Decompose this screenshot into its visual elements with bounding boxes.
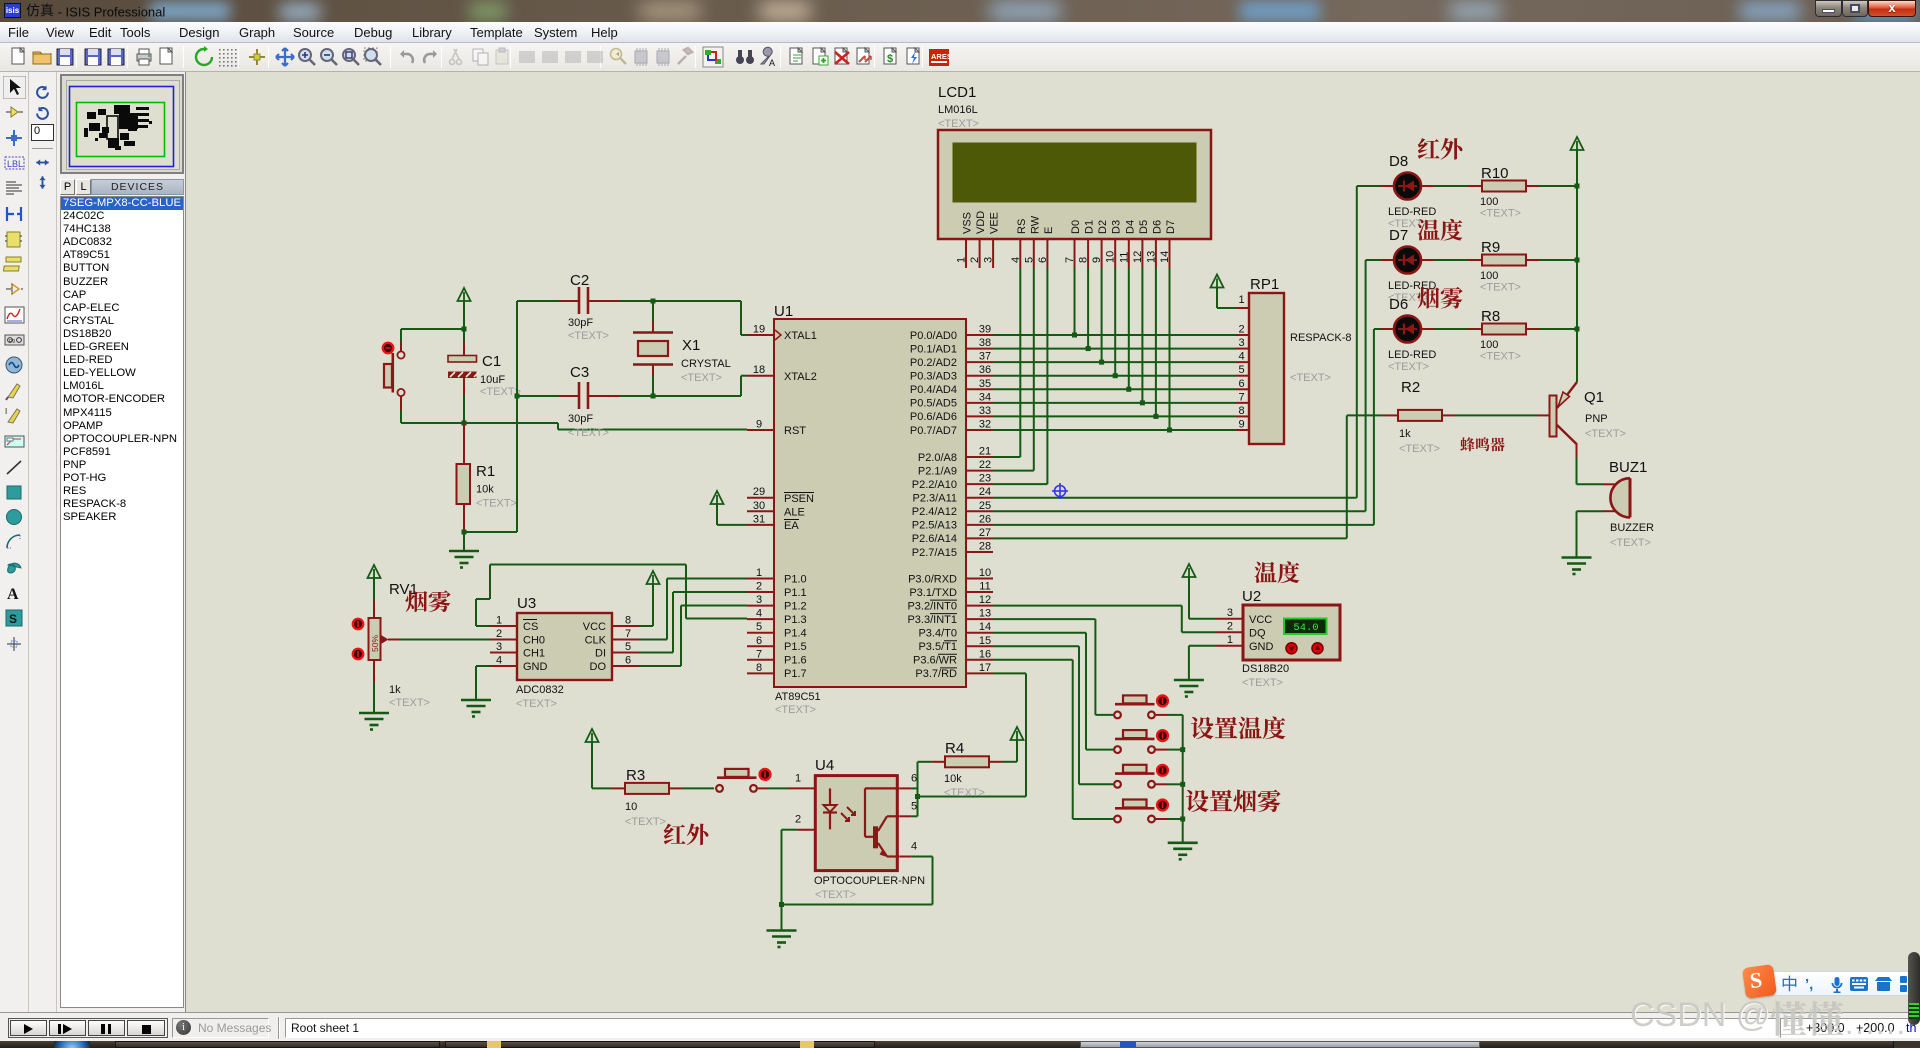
svg-text:P3.5/T1: P3.5/T1: [918, 641, 957, 653]
svg-text:CS: CS: [523, 621, 538, 633]
svg-text:E: E: [1043, 227, 1055, 234]
LCD1 labels: [938, 84, 979, 130]
toolbar: [0, 43, 1920, 72]
svg-text:11: 11: [979, 581, 990, 593]
wire X1 to XTAL1: [653, 300, 741, 302]
wire key1 to rail: [1156, 714, 1168, 716]
junction U4 ground net: [779, 902, 784, 907]
svg-text:P0.6/AD6: P0.6/AD6: [910, 411, 957, 423]
svg-text:10: 10: [979, 567, 991, 579]
svg-text:RS: RS: [1016, 219, 1028, 234]
svg-text:<TEXT>: <TEXT>: [938, 118, 979, 130]
svg-text:2: 2: [1238, 324, 1244, 336]
ground button rail: [1168, 843, 1198, 860]
button key1: [1114, 695, 1155, 718]
svg-text:1k: 1k: [1399, 428, 1411, 440]
svg-text:<TEXT>: <TEXT>: [1388, 361, 1429, 373]
svg-text:P3.4/T0: P3.4/T0: [918, 628, 957, 640]
rotate controls column: [29, 72, 57, 1012]
label 设置温度: [1191, 717, 1214, 739]
MCU U1 AT89C51 body: [774, 319, 966, 687]
cursor crosshair: [1052, 483, 1068, 499]
svg-text:32: 32: [979, 418, 991, 430]
wire buzzer to ground: [1577, 510, 1604, 512]
ground U2: [1174, 680, 1204, 697]
svg-text:50%: 50%: [370, 635, 380, 652]
svg-text:<TEXT>: <TEXT>: [1585, 428, 1626, 440]
svg-text:2: 2: [496, 628, 502, 640]
svg-text:3: 3: [496, 641, 502, 653]
svg-text:<TEXT>: <TEXT>: [775, 704, 816, 716]
button IR: [716, 769, 757, 792]
svg-text:ALE: ALE: [784, 507, 805, 519]
RV1 indicator dots: [353, 619, 363, 629]
svg-text:P1.4: P1.4: [784, 628, 807, 640]
junction X1 top: [651, 299, 656, 304]
svg-text:D6: D6: [1151, 220, 1163, 234]
svg-text:P3.1/TXD: P3.1/TXD: [909, 587, 957, 599]
wire LCD RW to P2.1: [1033, 268, 1035, 471]
wire vcc to button: [401, 328, 464, 330]
svg-text:4: 4: [1010, 257, 1022, 263]
svg-text:2: 2: [1227, 621, 1233, 633]
left panel: [57, 72, 186, 1012]
U1 pin labels left: [784, 330, 817, 680]
svg-text:10: 10: [625, 801, 637, 813]
svg-text:P2.2/A10: P2.2/A10: [912, 479, 957, 491]
ground buzzer: [1562, 558, 1592, 575]
svg-text:C2: C2: [570, 272, 589, 289]
svg-text:R2: R2: [1401, 379, 1420, 396]
svg-text:LED-RED: LED-RED: [1388, 349, 1436, 361]
svg-text:RESPACK-8: RESPACK-8: [1290, 332, 1352, 344]
wire R2 to Q1 base: [1456, 414, 1537, 416]
power vcc RP1: [1211, 275, 1224, 288]
LCD1 pin names: [962, 211, 1178, 234]
wire U2 GND to ground: [1189, 645, 1217, 647]
svg-text:12: 12: [979, 594, 991, 606]
svg-text:R1: R1: [476, 463, 495, 480]
svg-text:GND: GND: [1249, 641, 1274, 653]
svg-text:DI: DI: [595, 648, 606, 660]
svg-text:30pF: 30pF: [568, 413, 593, 425]
svg-text:BUZ1: BUZ1: [1609, 459, 1647, 476]
wire U3 CLK to P1.0: [639, 639, 667, 641]
transistor Q1 PNP: [1537, 382, 1626, 457]
junction R10 rail: [1575, 184, 1580, 189]
wire P3.4 to key2: [993, 632, 1086, 634]
svg-text:<TEXT>: <TEXT>: [389, 697, 430, 709]
status bar: [0, 1012, 1920, 1041]
svg-text:<TEXT>: <TEXT>: [568, 330, 609, 342]
label 温度 D7: [1418, 219, 1440, 240]
taskbar: [0, 1041, 1920, 1048]
button IR indicator: [760, 769, 771, 780]
U2 buttons up down: [1286, 643, 1323, 654]
svg-text:VEE: VEE: [989, 212, 1001, 234]
svg-text:P2.1/A9: P2.1/A9: [918, 465, 957, 477]
svg-text:7: 7: [625, 628, 631, 640]
svg-text:DQ: DQ: [1249, 628, 1266, 640]
svg-text:P2.5/A13: P2.5/A13: [912, 520, 957, 532]
wire key3 to rail: [1156, 783, 1168, 785]
U1 pin numbers left: [753, 324, 765, 674]
label 烟雾 D6: [1418, 287, 1440, 309]
wire button rail: [1182, 715, 1184, 843]
svg-text:18: 18: [753, 364, 765, 376]
svg-text:6: 6: [1037, 257, 1049, 263]
svg-text:VCC: VCC: [1249, 614, 1272, 626]
svg-text:OPTOCOUPLER-NPN: OPTOCOUPLER-NPN: [814, 875, 925, 887]
button key3: [1114, 765, 1155, 788]
svg-text:8: 8: [1078, 257, 1090, 263]
svg-text:D4: D4: [1124, 220, 1136, 234]
svg-text:5: 5: [756, 621, 762, 633]
U4 pin stubs: [797, 788, 911, 856]
svg-text:P0.4/AD4: P0.4/AD4: [910, 384, 957, 396]
svg-text:39: 39: [979, 324, 991, 336]
resistor R2 1k: [1384, 379, 1456, 455]
wire P2 to D7: [993, 510, 1366, 512]
svg-text:3: 3: [1227, 607, 1233, 619]
svg-text:23: 23: [979, 473, 991, 485]
wire P2 to D6: [993, 524, 1374, 526]
svg-text:1: 1: [1238, 294, 1244, 306]
svg-text:VDD: VDD: [975, 211, 987, 234]
svg-text:P0.3/AD3: P0.3/AD3: [910, 371, 957, 383]
svg-text:CH0: CH0: [523, 635, 545, 647]
svg-text:5: 5: [1238, 364, 1244, 376]
label 温度 U2: [1255, 562, 1277, 583]
svg-text:<TEXT>: <TEXT>: [1399, 443, 1440, 455]
scrollbar thumb bottom right: [1908, 952, 1920, 1025]
svg-text:<TEXT>: <TEXT>: [568, 427, 609, 439]
svg-text:7: 7: [756, 648, 762, 660]
svg-text:CLK: CLK: [585, 635, 607, 647]
wire U4 pin4 loop: [782, 904, 933, 906]
label 红外 D8: [1418, 138, 1440, 159]
button key2 indicator: [1157, 730, 1168, 741]
wires LCD data bus to P0 and RP1: [993, 268, 1236, 430]
U2 display 54.0: [1284, 619, 1327, 635]
wire U4 pins 5 6 pullup: [912, 787, 918, 789]
svg-text:36: 36: [979, 364, 991, 376]
LCD LCD1 LM016L body: [938, 130, 1211, 239]
svg-text:14: 14: [979, 621, 991, 633]
label 蜂鸣器: [1460, 437, 1474, 451]
button key3 indicator: [1157, 765, 1168, 776]
svg-text:U2: U2: [1242, 588, 1261, 605]
svg-text:VSS: VSS: [962, 212, 974, 234]
svg-text:<TEXT>: <TEXT>: [1480, 282, 1521, 294]
svg-text:PNP: PNP: [1585, 413, 1608, 425]
svg-text:C1: C1: [482, 353, 501, 370]
label 红外 R3: [664, 824, 686, 845]
wire U3 GND to ground: [476, 665, 490, 667]
svg-text:6: 6: [756, 635, 762, 647]
svg-text:16: 16: [979, 648, 991, 660]
svg-text:P1.2: P1.2: [784, 600, 807, 612]
svg-text:P1.6: P1.6: [784, 655, 807, 667]
svg-text:P1.3: P1.3: [784, 614, 807, 626]
junctions data bus: [1072, 333, 1172, 433]
svg-text:13: 13: [1145, 251, 1157, 263]
button RESET: [384, 342, 405, 410]
wire IR button to U4 pin1: [758, 787, 768, 789]
svg-text:D7: D7: [1389, 227, 1408, 244]
svg-text:X1: X1: [682, 337, 700, 354]
svg-text:D8: D8: [1389, 153, 1408, 170]
svg-text:VCC: VCC: [583, 621, 606, 633]
U1 left pin stubs: [747, 335, 774, 673]
wire R3 to IR button: [683, 787, 715, 789]
U1 pin numbers right: [979, 324, 991, 674]
capacitor C2 30pF: [517, 272, 653, 342]
svg-text:8: 8: [756, 662, 762, 674]
ground U3: [461, 700, 491, 717]
svg-text:26: 26: [979, 513, 991, 525]
junction rail 3: [1180, 782, 1185, 787]
svg-text:P2.7/A15: P2.7/A15: [912, 547, 957, 559]
resistor R4 10k: [918, 740, 1003, 799]
svg-text:P2.6/A14: P2.6/A14: [912, 533, 957, 545]
crystal X1: [633, 301, 731, 396]
resistor R9 100: [1434, 239, 1577, 294]
wire key4 to rail: [1156, 818, 1168, 820]
svg-text:5: 5: [625, 641, 631, 653]
svg-text:1: 1: [1227, 634, 1233, 646]
svg-text:S: S: [9, 612, 17, 626]
svg-text:100: 100: [1480, 270, 1498, 282]
svg-text:21: 21: [979, 446, 991, 458]
svg-text:37: 37: [979, 351, 991, 363]
U3 pin stubs: [490, 626, 639, 666]
wire P3.6 to key4: [993, 659, 1073, 661]
svg-text:P3.7/RD: P3.7/RD: [915, 668, 957, 680]
LED D6 LED-RED: [1381, 296, 1436, 373]
resistor R3 10: [611, 767, 683, 828]
U1 pin labels right: [907, 330, 957, 680]
power vcc reset: [458, 288, 471, 301]
svg-text:LED-RED: LED-RED: [1388, 280, 1436, 292]
wire P2 to D8: [993, 497, 1357, 499]
device list: [60, 196, 184, 1008]
svg-text:GND: GND: [523, 661, 548, 673]
U1 XTAL1 input mark: [775, 330, 781, 340]
svg-text:BUZZER: BUZZER: [1610, 522, 1654, 534]
svg-text:P1.0: P1.0: [784, 573, 807, 585]
svg-text:P3.0/RXD: P3.0/RXD: [908, 573, 957, 585]
svg-text:D6: D6: [1389, 296, 1408, 313]
svg-text:P2.4/A12: P2.4/A12: [912, 506, 957, 518]
svg-text:8: 8: [625, 615, 631, 627]
wire U4 pin2 to ground net: [782, 829, 798, 831]
svg-text:P3.6/WR: P3.6/WR: [913, 655, 957, 667]
svg-text:2: 2: [969, 257, 981, 263]
U3 pin numbers: [496, 615, 631, 667]
junction osc C3: [515, 394, 520, 399]
svg-text:24: 24: [979, 486, 991, 498]
overview minimap: [60, 74, 184, 174]
RP1 pin stubs and numbers: [1236, 294, 1249, 430]
svg-text:R9: R9: [1481, 239, 1500, 256]
svg-text:4: 4: [496, 655, 502, 667]
svg-text:<TEXT>: <TEXT>: [1480, 208, 1521, 220]
svg-text:35: 35: [979, 378, 991, 390]
svg-text:4: 4: [911, 841, 917, 853]
svg-text:A: A: [7, 586, 19, 603]
button RESET indicator: [383, 343, 393, 353]
svg-text:1k: 1k: [389, 684, 401, 696]
wire LCD RS to P2.0: [1019, 268, 1021, 457]
svg-text:17: 17: [979, 662, 991, 674]
svg-text:P0.0/AD0: P0.0/AD0: [910, 330, 957, 342]
potentiometer RV1 1k: [369, 581, 430, 709]
svg-text:1: 1: [756, 567, 762, 579]
svg-text:100: 100: [1480, 196, 1498, 208]
power vcc EA: [711, 491, 724, 504]
app icon: [4, 3, 21, 18]
sensor U2 DS18B20 body: [1243, 605, 1340, 660]
U3 pin labels: [523, 620, 607, 674]
wire U2 DQ to P3.2: [993, 605, 1182, 607]
junction C1 bottom: [462, 421, 467, 426]
svg-text:3: 3: [983, 257, 995, 263]
junction R9 rail: [1575, 258, 1580, 263]
U4 inner transistor: [865, 788, 899, 857]
svg-text:7: 7: [1238, 391, 1244, 403]
ground RV1: [373, 682, 375, 713]
wire RV1 wiper to CH0: [400, 639, 490, 641]
svg-text:LED-RED: LED-RED: [1388, 206, 1436, 218]
svg-text:PSEN: PSEN: [784, 493, 814, 505]
svg-text:30pF: 30pF: [568, 317, 593, 329]
svg-text:RST: RST: [784, 425, 806, 437]
LED D7 LED-RED: [1381, 227, 1436, 304]
junction U4 output: [915, 794, 920, 799]
wire P3.3 to key1: [993, 618, 1095, 620]
svg-text:P0.7/AD7: P0.7/AD7: [910, 425, 957, 437]
button key2: [1114, 730, 1155, 753]
svg-text:6: 6: [911, 772, 917, 784]
ADC U3 ADC0832 body: [517, 613, 612, 680]
U4 inner led: [823, 788, 855, 829]
svg-text:30: 30: [753, 500, 765, 512]
svg-text:<TEXT>: <TEXT>: [625, 816, 666, 828]
svg-text:XTAL1: XTAL1: [784, 330, 817, 342]
svg-text:<TEXT>: <TEXT>: [815, 889, 856, 901]
ground U4: [781, 905, 783, 931]
watermark: [1630, 996, 1844, 1038]
svg-text:CH1: CH1: [523, 648, 545, 660]
svg-text:6: 6: [625, 655, 631, 667]
LCD1 pin numbers: [956, 251, 1172, 263]
svg-text:5: 5: [1023, 257, 1035, 263]
ground reset: [463, 532, 465, 551]
junction reset-vcc: [462, 327, 467, 332]
svg-text:P2.0/A8: P2.0/A8: [918, 452, 957, 464]
wire P3.5 to key3: [993, 645, 1079, 647]
wire X1 to XTAL2: [653, 395, 741, 397]
power vcc U3: [647, 571, 660, 584]
svg-text:6: 6: [1238, 378, 1244, 390]
svg-text:100: 100: [1480, 339, 1498, 351]
svg-text:$: $: [887, 53, 893, 65]
svg-text:EA: EA: [784, 520, 799, 532]
sogou input bar: [1762, 971, 1920, 996]
svg-text:27: 27: [979, 527, 991, 539]
resistor R10 100: [1434, 165, 1577, 220]
svg-text:<TEXT>: <TEXT>: [1242, 677, 1283, 689]
svg-text:10uF: 10uF: [480, 374, 505, 386]
svg-text:LBL: LBL: [7, 159, 23, 169]
svg-text:4: 4: [756, 608, 762, 620]
wire Q1 collector to buzzer: [1576, 457, 1578, 484]
svg-text:LM016L: LM016L: [938, 104, 978, 116]
svg-text:9: 9: [756, 419, 762, 431]
svg-text:3: 3: [1238, 337, 1244, 349]
svg-text:9: 9: [1091, 257, 1103, 263]
svg-text:LCD1: LCD1: [938, 84, 976, 101]
svg-text:<TEXT>: <TEXT>: [516, 698, 557, 710]
svg-text:3: 3: [756, 594, 762, 606]
svg-text:U1: U1: [774, 303, 793, 320]
svg-text:I: I: [5, 407, 7, 416]
svg-text:D7: D7: [1165, 220, 1177, 234]
wire R1 to EA-net: [464, 531, 517, 533]
LCD1 pin stubs: [966, 239, 1170, 268]
svg-text:31: 31: [753, 513, 765, 525]
junction rail 2: [1180, 747, 1185, 752]
svg-text:4: 4: [1238, 351, 1244, 363]
svg-text:1: 1: [795, 772, 801, 784]
power vcc RV1: [368, 565, 381, 578]
wire U3 DI to P1.1: [639, 652, 673, 654]
svg-text:D1: D1: [1084, 220, 1096, 234]
menu bar: [0, 22, 1920, 43]
junction R1 bottom: [462, 530, 467, 535]
wire U3 DO to P1.2: [639, 665, 681, 667]
svg-text:P3.3/INT1: P3.3/INT1: [907, 614, 957, 626]
svg-text:9: 9: [1238, 418, 1244, 430]
svg-text:P1.1: P1.1: [784, 587, 807, 599]
svg-text:P9: P9: [9, 339, 15, 345]
svg-text:<TEXT>: <TEXT>: [1480, 351, 1521, 363]
svg-text:D3: D3: [1111, 220, 1123, 234]
svg-text:<TEXT>: <TEXT>: [1610, 537, 1651, 549]
svg-text:D5: D5: [1138, 220, 1150, 234]
U2 pin labels and numbers: [1217, 607, 1274, 653]
svg-text:DS18B20: DS18B20: [1242, 663, 1289, 675]
power vcc U2: [1183, 564, 1196, 577]
svg-text:ADC0832: ADC0832: [516, 684, 564, 696]
svg-text:1: 1: [496, 615, 502, 627]
junction rail 4: [1180, 817, 1185, 822]
svg-text:RW: RW: [1029, 215, 1041, 234]
svg-text:P0.1/AD1: P0.1/AD1: [910, 343, 957, 355]
svg-text:AT89C51: AT89C51: [775, 691, 821, 703]
svg-text:14: 14: [1159, 251, 1171, 263]
capacitor C1: [448, 329, 521, 423]
left icon toolbar: [0, 72, 29, 1012]
svg-text:DO: DO: [590, 661, 607, 673]
svg-text:P0.5/AD5: P0.5/AD5: [910, 398, 957, 410]
svg-text:8: 8: [1238, 405, 1244, 417]
svg-text:22: 22: [979, 459, 991, 471]
svg-text:A: A: [769, 58, 775, 68]
svg-text:25: 25: [979, 500, 991, 512]
resistor R1 10k: [457, 423, 517, 532]
